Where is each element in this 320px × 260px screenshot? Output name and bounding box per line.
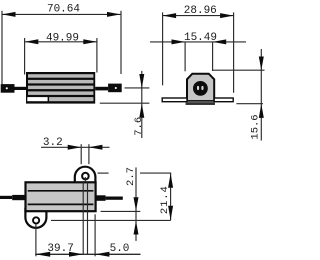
dimension 15.49 left arrow <box>172 39 186 44</box>
svg-text:15.6: 15.6 <box>250 114 262 139</box>
dimension 28.96 left extension line <box>162 12 164 85</box>
side view bottom mounting lug <box>25 209 46 228</box>
dimension 7.6 down arrow <box>139 74 144 88</box>
bottom dimension line <box>35 253 140 255</box>
dimension 15.6 line <box>260 49 262 141</box>
top view right tab hole <box>115 87 117 89</box>
side view body groove line 2 <box>28 203 94 205</box>
end view right flange <box>214 98 233 102</box>
dimension 3.2 left arrow <box>68 145 82 150</box>
dimension 49.99 line <box>25 41 97 43</box>
top lug hole center stub <box>84 177 86 182</box>
dimension 39.7 left arrow <box>35 252 50 257</box>
end view left flange <box>162 98 187 102</box>
dimension 21.4 top reference line <box>140 172 171 174</box>
dimension 2.7 line <box>135 167 137 241</box>
top view fin 3 <box>28 86 93 90</box>
top view fin 1 <box>28 74 93 78</box>
dimension 70.64 left extension line <box>1 11 3 84</box>
side view top mounting lug <box>75 167 96 184</box>
dimension 39.7 right arrow <box>69 252 83 257</box>
dimension 70.64 left arrow <box>2 12 16 17</box>
bottom lug centerline <box>35 224 37 256</box>
side view bottom lug hole <box>33 217 39 223</box>
end view core slot left <box>197 86 199 90</box>
dimension 5.0 right arrow <box>95 252 109 257</box>
dimension 15.49 left extension line <box>184 42 186 71</box>
dimension 3.2 line <box>41 146 110 148</box>
side view right tab <box>96 195 106 201</box>
dimension 15.49 line <box>150 41 246 43</box>
top view fin 4 <box>28 91 93 95</box>
dimension 49.99 left extension line <box>24 38 26 75</box>
dimension 15.6 up arrow <box>259 104 264 118</box>
side view left tab <box>12 195 25 200</box>
side view body <box>26 182 96 211</box>
dimension 7.6 top reference line <box>125 87 150 89</box>
dimension 28.96 right extension line <box>233 12 235 92</box>
dimension 3.2 right arrow <box>89 145 103 150</box>
top view right tab <box>108 84 122 93</box>
dimension 2.7 body bottom reference line <box>101 210 141 212</box>
dimension 28.96 line <box>163 15 234 17</box>
dimension 15.6 bottom reference line <box>236 103 263 105</box>
top view fin 5 <box>49 97 93 101</box>
svg-text:5.0: 5.0 <box>110 243 130 255</box>
body right edge extension line <box>94 214 96 256</box>
dimension 2.7 up arrow <box>134 221 139 235</box>
dimension 49.99 right extension line <box>96 38 98 73</box>
dimension 49.99 left arrow <box>25 39 39 44</box>
svg-text:21.4: 21.4 <box>159 185 171 214</box>
hole edge line left <box>82 181 84 254</box>
dimension 70.64 right arrow <box>107 12 121 17</box>
end view core circle <box>193 81 208 96</box>
side view right lead <box>106 197 123 200</box>
dimension 21.4 up arrow <box>168 173 173 187</box>
end view base strip bottom edge <box>186 103 215 104</box>
dimension 7.6 line <box>141 71 143 138</box>
side view left lead <box>0 196 12 199</box>
svg-text:7.6: 7.6 <box>133 117 145 136</box>
dimension 7.6 bottom reference line <box>100 102 150 104</box>
dimension 7.6 up arrow <box>139 104 144 118</box>
dimension 21.4 line <box>170 173 172 220</box>
top view right stem <box>95 87 108 91</box>
dimension 3.2 right extension line <box>88 144 90 164</box>
side view body groove line 1 <box>28 190 94 192</box>
dimension 21.4 bottom reference line <box>51 219 171 221</box>
top view resistor body outline <box>26 72 95 104</box>
dimension 15.49 right arrow <box>213 39 227 44</box>
dimension 15.6 down arrow <box>259 57 264 71</box>
svg-text:49.99: 49.99 <box>46 32 79 44</box>
dimension 2.7 top reference dash <box>98 172 109 174</box>
dimension 28.96 right arrow <box>220 13 234 18</box>
dimension 70.64 line <box>2 13 121 15</box>
side view top lug hole <box>82 173 89 180</box>
end view core slot right <box>201 86 203 90</box>
dimension 21.4 down arrow <box>168 206 173 220</box>
top view left tab <box>1 84 15 93</box>
top view left tab hole <box>6 87 8 89</box>
top view left stem <box>15 87 27 90</box>
dimension 49.99 right arrow <box>83 39 97 44</box>
dimension 3.2 left extension line <box>80 144 82 164</box>
svg-text:2.7: 2.7 <box>125 167 137 186</box>
dimension 2.7 down arrow <box>134 197 139 211</box>
dimension 15.6 top reference line <box>213 69 265 71</box>
dimension 70.64 right extension line <box>120 11 122 74</box>
end view base strip <box>186 101 215 105</box>
dimension 15.49 right extension line <box>212 42 214 71</box>
dimension 28.96 left arrow <box>163 13 177 18</box>
hole edge line right <box>87 181 89 254</box>
top view label area white <box>27 97 47 101</box>
top view fin 2 <box>28 80 93 84</box>
end view housing <box>187 74 214 101</box>
